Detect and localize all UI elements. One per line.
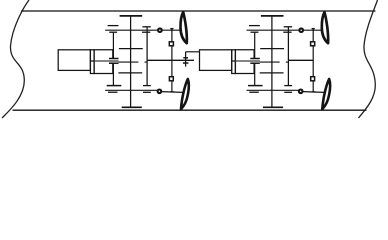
right break line [359,0,378,118]
left wheel-motor unit [58,12,189,109]
left break line [2,0,29,118]
spring leaf upper [183,57,188,59]
frame bottom rail [13,109,367,111]
spring leaf lower [183,62,189,64]
right wheel-motor unit [200,12,331,109]
frame top rail [21,10,376,12]
nose suspension beam extension over left axle [172,59,194,61]
nose suspension stem [185,52,187,67]
nose suspension link to right motor [186,51,200,53]
